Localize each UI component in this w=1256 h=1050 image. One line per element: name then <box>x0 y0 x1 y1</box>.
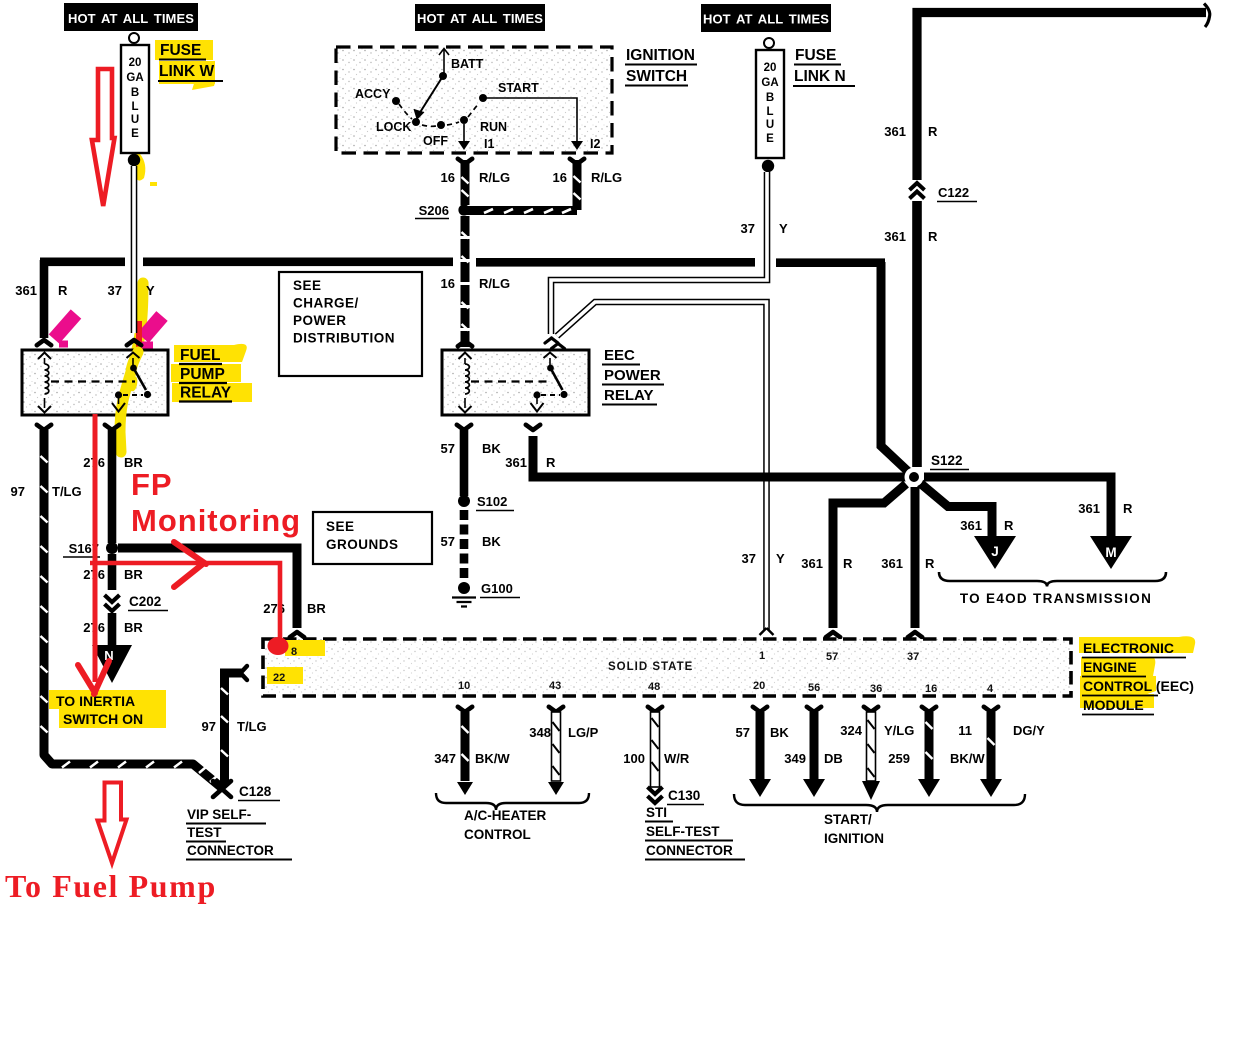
svg-text:1: 1 <box>759 650 765 662</box>
svg-text:IGNITION: IGNITION <box>626 47 695 64</box>
svg-text:To Fuel Pump: To Fuel Pump <box>5 868 217 904</box>
svg-text:361: 361 <box>505 455 527 470</box>
svg-text:361: 361 <box>801 556 823 571</box>
svg-text:BR: BR <box>124 620 143 635</box>
svg-text:CONNECTOR: CONNECTOR <box>646 843 733 858</box>
red arrow to fuel pump <box>98 783 127 864</box>
wire 57 BK from EEC relay to S102 <box>441 425 502 496</box>
svg-text:B: B <box>131 87 139 99</box>
svg-text:57: 57 <box>826 651 838 663</box>
svg-text:43: 43 <box>549 680 561 692</box>
box SEE CHARGE/POWER DISTRIBUTION <box>279 272 422 376</box>
label VIP SELF-TEST CONNECTOR <box>186 807 292 860</box>
svg-text:START/: START/ <box>824 812 872 827</box>
svg-text:BK/W: BK/W <box>475 751 510 766</box>
svg-text:LOCK: LOCK <box>376 120 411 134</box>
ignition switch BATT terminal <box>439 49 449 77</box>
svg-text:BATT: BATT <box>451 57 484 71</box>
fuse link W <box>121 33 149 166</box>
highlight dot below fuse link W <box>150 182 157 186</box>
svg-text:A/C-HEATER: A/C-HEATER <box>464 808 546 823</box>
svg-text:ACCY: ACCY <box>355 87 391 101</box>
svg-text:ELECTRONIC: ELECTRONIC <box>1083 640 1174 656</box>
svg-text:E: E <box>131 128 139 140</box>
corner down to S122 branch <box>881 262 914 477</box>
svg-text:HOT AT ALL TIMES: HOT AT ALL TIMES <box>68 11 194 26</box>
svg-text:Y: Y <box>779 221 788 236</box>
svg-text:U: U <box>766 119 774 131</box>
svg-text:E: E <box>766 133 774 145</box>
svg-text:I1: I1 <box>484 137 494 151</box>
svg-text:START: START <box>498 81 539 95</box>
label TO INERTIA SWITCH ON <box>56 693 143 727</box>
wire 276 BR from fuel pump relay to S167 <box>83 425 143 543</box>
svg-text:361: 361 <box>1078 501 1100 516</box>
svg-text:STI: STI <box>646 805 667 820</box>
label FUSE LINK N <box>793 47 855 86</box>
svg-text:361: 361 <box>15 283 37 298</box>
svg-text:J: J <box>991 544 999 559</box>
svg-text:GROUNDS: GROUNDS <box>326 537 399 552</box>
svg-text:20: 20 <box>764 62 777 74</box>
svg-text:SEE: SEE <box>326 519 355 534</box>
svg-text:57: 57 <box>441 441 455 456</box>
svg-text:LINK W: LINK W <box>159 63 214 80</box>
highlight FUEL PUMP RELAY label <box>171 344 252 402</box>
svg-text:U: U <box>131 114 139 126</box>
svg-text:EEC: EEC <box>604 347 635 364</box>
svg-text:361: 361 <box>960 518 982 533</box>
connector C128 <box>213 781 280 801</box>
red mark start of FP monitoring at relay pin <box>136 321 142 348</box>
svg-text:36: 36 <box>870 683 882 695</box>
svg-text:20: 20 <box>129 57 142 69</box>
svg-text:GA: GA <box>761 77 778 89</box>
wire 16 R/LG from S206 down to EEC power relay <box>441 216 511 347</box>
svg-text:RELAY: RELAY <box>180 385 232 402</box>
svg-text:37: 37 <box>907 651 919 663</box>
internal dashed link <box>51 380 135 382</box>
svg-text:LG/P: LG/P <box>568 725 599 740</box>
svg-text:BK: BK <box>482 534 501 549</box>
EEC power relay U2 <box>442 350 589 415</box>
svg-text:SEE: SEE <box>293 278 322 293</box>
wire 276 BR from S167 to EEC pin 8 <box>118 548 326 637</box>
node S206 <box>415 203 470 219</box>
wire 16 R/LG from I2 to splice <box>553 159 623 210</box>
svg-text:57: 57 <box>441 534 455 549</box>
svg-text:C130: C130 <box>668 788 700 803</box>
hot-at-all-times banner 3 <box>701 4 831 32</box>
wire 361 R from S122 to terminal M <box>924 477 1133 537</box>
label STI SELF-TEST CONNECTOR <box>645 805 745 860</box>
svg-text:PUMP: PUMP <box>180 366 225 383</box>
wire 37 Y from fuse link W down to fuel pump relay <box>108 166 155 345</box>
svg-text:R: R <box>928 229 938 244</box>
brace A/C-HEATER CONTROL <box>436 793 589 842</box>
label EEC POWER RELAY <box>602 347 664 405</box>
label ELECTRONIC ENGINE CONTROL (EEC) MODULE <box>1082 640 1194 715</box>
fuse link N <box>756 38 784 172</box>
wire 276 BR from C202 to inertia switch <box>83 613 143 647</box>
highlight TO INERTIA SWITCH ON <box>49 690 166 709</box>
svg-text:97: 97 <box>202 719 216 734</box>
svg-text:HOT AT ALL TIMES: HOT AT ALL TIMES <box>703 12 829 27</box>
terminal M to E4OD <box>1090 536 1132 569</box>
wire from S206 to I2 branch <box>464 206 577 215</box>
svg-text:11: 11 <box>958 723 972 738</box>
magenta mark left relay pin <box>54 314 76 344</box>
svg-text:FP: FP <box>131 467 173 502</box>
red FP monitoring trace from relay down <box>93 414 98 682</box>
red arrowhead to inertia switch <box>78 661 109 694</box>
terminal N to inertia switch <box>92 645 132 683</box>
svg-text:RELAY: RELAY <box>604 387 653 404</box>
wire 361 R from C122 down to S122 <box>912 201 922 467</box>
hot-at-all-times banner 2 <box>415 4 545 31</box>
box SEE GROUNDS <box>313 512 432 564</box>
svg-text:97: 97 <box>11 484 25 499</box>
svg-text:SWITCH ON: SWITCH ON <box>63 711 143 727</box>
connector C130 <box>648 787 705 805</box>
svg-text:R/LG: R/LG <box>479 170 510 185</box>
red arrow at fuse link W <box>92 69 115 206</box>
label FUEL PUMP RELAY <box>179 347 232 402</box>
red dot at EEC pin 8 <box>268 637 289 655</box>
node S102 <box>458 494 514 511</box>
wire 97 T/LG from C128 up to EEC pin 22 <box>202 666 267 786</box>
svg-text:I2: I2 <box>590 137 600 151</box>
svg-text:37: 37 <box>742 551 756 566</box>
wire 361 R from S122 to terminal J <box>920 483 1014 537</box>
svg-text:347: 347 <box>434 751 456 766</box>
svg-text:L: L <box>766 106 773 118</box>
svg-text:BK: BK <box>482 441 501 456</box>
svg-text:DISTRIBUTION: DISTRIBUTION <box>293 331 395 346</box>
hot-at-all-times banner 1 <box>64 3 198 31</box>
svg-text:FUEL: FUEL <box>180 347 220 364</box>
svg-text:B: B <box>766 92 774 104</box>
svg-text:R/LG: R/LG <box>479 276 510 291</box>
label FUSE LINK W <box>158 42 223 81</box>
connector C122 <box>884 183 977 244</box>
wire 100 W/R from pin 48 to C130 <box>623 707 690 787</box>
svg-text:R/LG: R/LG <box>591 170 622 185</box>
highlight FUSE LINK W label <box>155 40 215 90</box>
svg-text:M: M <box>1105 545 1116 560</box>
svg-text:56: 56 <box>808 682 820 694</box>
EEC module box <box>263 639 1071 696</box>
svg-text:361: 361 <box>881 556 903 571</box>
svg-text:DB: DB <box>824 751 843 766</box>
splice S122 <box>905 453 970 487</box>
wire 361 R from S122 down to EEC pin 37 <box>881 487 935 637</box>
highlight pin 8 label <box>285 640 325 656</box>
svg-text:CONTROL (EEC): CONTROL (EEC) <box>1083 678 1194 694</box>
svg-text:L: L <box>131 101 138 113</box>
coil <box>44 358 46 408</box>
svg-text:BR: BR <box>307 601 326 616</box>
brace TO E4OD TRANSMISSION <box>939 572 1166 606</box>
ignition switch start output I2 <box>486 98 600 151</box>
svg-text:S122: S122 <box>931 453 963 468</box>
svg-text:349: 349 <box>784 751 806 766</box>
wire 361 R from S122 to EEC pin 57 <box>801 484 906 637</box>
wire 348 LG/P from pin 43 <box>529 707 598 795</box>
wire 16 R/LG from I1 to S206 <box>441 159 511 205</box>
svg-text:48: 48 <box>648 681 660 693</box>
wire 57 BK from S102 to G100 <box>441 510 502 578</box>
wire 276 BR from S167 to C202 <box>83 554 143 590</box>
svg-text:W/R: W/R <box>664 751 690 766</box>
svg-text:361: 361 <box>884 229 906 244</box>
connector C202 <box>105 594 169 611</box>
svg-text:OFF: OFF <box>423 134 448 148</box>
svg-text:R: R <box>1004 518 1014 533</box>
svg-text:4: 4 <box>987 683 994 695</box>
brace START/IGNITION <box>734 794 1025 846</box>
wire 259 BK/W from pin 16 <box>888 707 985 797</box>
magenta mark right relay pin <box>143 316 162 338</box>
svg-text:BK: BK <box>770 725 789 740</box>
svg-text:R: R <box>843 556 853 571</box>
svg-text:8: 8 <box>291 646 297 658</box>
label IGNITION SWITCH <box>625 47 697 86</box>
svg-text:VIP SELF-: VIP SELF- <box>187 807 251 822</box>
svg-text:20: 20 <box>753 680 765 692</box>
svg-text:FUSE: FUSE <box>795 47 836 64</box>
svg-text:57: 57 <box>736 725 750 740</box>
svg-text:GA: GA <box>126 72 143 84</box>
svg-text:IGNITION: IGNITION <box>824 831 884 846</box>
svg-text:POWER: POWER <box>604 367 661 384</box>
svg-text:16: 16 <box>553 170 567 185</box>
svg-text:SOLID STATE: SOLID STATE <box>608 661 693 673</box>
node S167 <box>63 541 118 557</box>
svg-text:R: R <box>928 124 938 139</box>
highlight ELECTRONIC ENGINE CONTROL MODULE <box>1079 636 1195 653</box>
ignition switch run output I1 <box>458 124 494 151</box>
svg-text:100: 100 <box>623 751 645 766</box>
wire 11 DG/Y from pin 4 <box>958 707 1045 797</box>
svg-text:TEST: TEST <box>187 825 222 840</box>
svg-text:348: 348 <box>529 725 551 740</box>
main 361 R feed wire horizontal run <box>40 258 885 268</box>
svg-text:C128: C128 <box>239 784 272 799</box>
svg-text:R: R <box>1123 501 1133 516</box>
red arrowhead on branch <box>174 542 206 587</box>
svg-text:CONNECTOR: CONNECTOR <box>187 843 274 858</box>
wire 57 BK from pin 20 <box>736 707 790 797</box>
svg-text:R: R <box>925 556 935 571</box>
terminal J to E4OD <box>974 536 1016 569</box>
wire 324 Y/LG from pin 36 <box>840 707 914 800</box>
ground G100 <box>452 581 520 607</box>
svg-text:16: 16 <box>441 170 455 185</box>
svg-text:SWITCH: SWITCH <box>626 68 687 85</box>
svg-text:T/LG: T/LG <box>237 719 267 734</box>
svg-text:FUSE: FUSE <box>160 42 201 59</box>
svg-text:LINK N: LINK N <box>794 68 846 85</box>
svg-text:37: 37 <box>108 283 122 298</box>
highlight pin 22 label <box>267 667 303 684</box>
switch <box>127 353 140 359</box>
svg-text:16: 16 <box>925 683 937 695</box>
wire 361 R down to fuel pump relay <box>15 260 68 345</box>
svg-text:BR: BR <box>124 567 143 582</box>
wire 97 T/LG from fuel pump relay to fuel pump <box>11 425 222 788</box>
svg-text:361: 361 <box>884 124 906 139</box>
fuel pump relay U1 <box>22 350 168 452</box>
svg-text:S102: S102 <box>477 494 507 509</box>
red label FP Monitoring <box>131 467 301 538</box>
svg-text:RUN: RUN <box>480 120 507 134</box>
svg-text:C202: C202 <box>129 594 161 609</box>
svg-text:ENGINE: ENGINE <box>1083 659 1137 675</box>
svg-text:37: 37 <box>741 221 755 236</box>
red FP monitoring branch to EEC pin 8 <box>90 563 280 640</box>
highlight stroke on wire 37 above fuel pump relay <box>136 283 143 353</box>
wire 361 R from EEC power relay to S122 <box>505 425 906 477</box>
svg-text:C122: C122 <box>938 185 969 200</box>
svg-text:Y: Y <box>146 283 155 298</box>
wire 349 DB from pin 56 <box>784 707 842 797</box>
svg-text:R: R <box>58 283 68 298</box>
svg-text:R: R <box>546 455 556 470</box>
svg-text:HOT AT ALL TIMES: HOT AT ALL TIMES <box>417 11 543 26</box>
svg-text:10: 10 <box>458 680 470 692</box>
svg-text:CONTROL: CONTROL <box>464 827 531 842</box>
svg-text:MODULE: MODULE <box>1083 697 1144 713</box>
svg-text:T/LG: T/LG <box>52 484 82 499</box>
svg-text:S206: S206 <box>419 203 449 218</box>
svg-text:324: 324 <box>840 723 862 738</box>
power wire 361 R top right with arrow <box>884 4 1209 181</box>
ignition switch rotor arm <box>414 72 447 119</box>
svg-text:SELF-TEST: SELF-TEST <box>646 824 720 839</box>
wire 347 BK/W from pin 10 <box>434 707 510 795</box>
highlight smudge at fuse link W bottom <box>130 138 145 181</box>
svg-text:16: 16 <box>441 276 455 291</box>
ignition switch contacts <box>392 94 487 129</box>
svg-text:POWER: POWER <box>293 313 347 328</box>
svg-text:22: 22 <box>273 672 285 684</box>
svg-text:Y/LG: Y/LG <box>884 723 914 738</box>
wire 37 Y from fuse link N down and to EEC power relay <box>551 172 788 334</box>
svg-text:BK/W: BK/W <box>950 751 985 766</box>
svg-text:G100: G100 <box>481 581 513 596</box>
svg-text:Y: Y <box>776 551 785 566</box>
svg-text:Monitoring: Monitoring <box>131 503 301 538</box>
wire 37 Y branch from relay pin down to EEC pin 1 <box>545 302 785 635</box>
svg-text:TO E4OD TRANSMISSION: TO E4OD TRANSMISSION <box>960 591 1152 606</box>
svg-text:DG/Y: DG/Y <box>1013 723 1045 738</box>
svg-text:259: 259 <box>888 751 910 766</box>
ignition switch box <box>336 47 612 153</box>
svg-text:CHARGE/: CHARGE/ <box>293 296 359 311</box>
